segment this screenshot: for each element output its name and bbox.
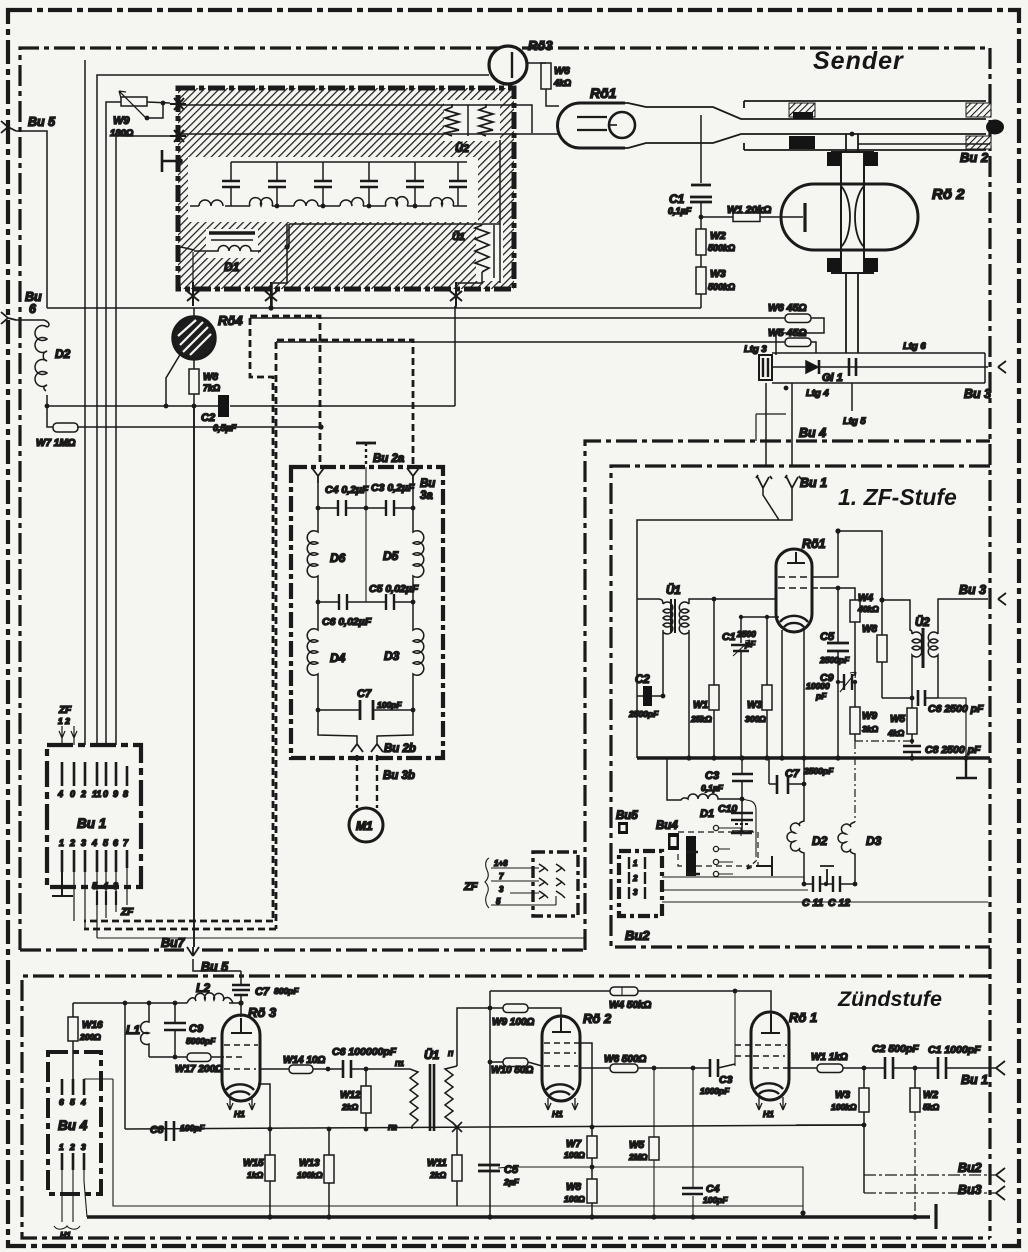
- rod hatch block left upper: [789, 103, 815, 117]
- svg-text:0: 0: [70, 789, 75, 799]
- C2 2500 black cap: [637, 695, 663, 697]
- svg-text:Zündstufe: Zündstufe: [837, 987, 942, 1011]
- svg-text:2kΩ: 2kΩ: [341, 1102, 358, 1112]
- svg-text:40kΩ: 40kΩ: [857, 604, 879, 614]
- Bu3a fork: [407, 468, 419, 483]
- svg-text:Bu2: Bu2: [625, 928, 650, 943]
- W11 2k: [456, 1127, 458, 1206]
- L1 coil: [141, 1003, 149, 1057]
- box bottom pin X 1: [187, 282, 199, 306]
- svg-text:W2: W2: [923, 1090, 938, 1101]
- resistor W5 45: [785, 338, 811, 347]
- W5 2M: [653, 1068, 655, 1217]
- svg-text:Bu 3: Bu 3: [959, 583, 986, 597]
- svg-text:C6 100000pF: C6 100000pF: [332, 1046, 397, 1058]
- C10: [741, 781, 743, 829]
- svg-text:W8: W8: [566, 1182, 581, 1193]
- svg-text:Ü2: Ü2: [915, 616, 930, 629]
- svg-text:Ü1: Ü1: [424, 1047, 440, 1062]
- Roe2 cathode bar: [803, 203, 806, 232]
- svg-text:3a: 3a: [420, 490, 433, 502]
- svg-text:2µF: 2µF: [503, 1177, 520, 1187]
- svg-text:W9: W9: [862, 711, 877, 722]
- Bu4 box Zuend: [48, 1052, 101, 1194]
- svg-text:W9: W9: [113, 115, 130, 127]
- C2 line up to pin3: [454, 306, 456, 406]
- svg-text:4: 4: [57, 789, 63, 799]
- ZF-Stufe box border: [611, 466, 990, 947]
- svg-text:2500pF: 2500pF: [803, 766, 834, 776]
- wire Bu5 down to supply line: [16, 131, 47, 308]
- svg-text:0,1µF: 0,1µF: [668, 206, 692, 216]
- svg-text:Bu 1: Bu 1: [77, 816, 106, 831]
- heater line: [113, 1079, 803, 1206]
- C1 trimmer ZF: [740, 617, 742, 758]
- D4 coil: [307, 602, 318, 710]
- svg-text:D1: D1: [700, 808, 714, 820]
- tube cathode arcs: [780, 616, 808, 627]
- svg-text:Bu 1: Bu 1: [961, 1073, 988, 1087]
- D3 coil: [413, 602, 424, 710]
- svg-text:3: 3: [113, 881, 118, 891]
- svg-text:C8 2500 pF: C8 2500 pF: [925, 744, 981, 756]
- svg-text:Bu2: Bu2: [958, 1161, 982, 1175]
- svg-text:W9 100Ω: W9 100Ω: [492, 1017, 534, 1028]
- svg-text:H1: H1: [60, 1230, 71, 1240]
- svg-text:4: 4: [102, 881, 108, 891]
- svg-text:C2: C2: [635, 674, 650, 686]
- dash-dot link W9 to C8: [855, 740, 910, 742]
- Roe1 tube Zuend: [751, 1012, 789, 1100]
- thin line under cables: [97, 937, 584, 939]
- svg-text:pF: pF: [744, 639, 756, 649]
- svg-text:4kΩ: 4kΩ: [553, 78, 571, 88]
- Bu1 bottom pins: [62, 850, 127, 872]
- Roe2 bottom pipes: [846, 273, 858, 353]
- Bu1 forks at ZF top: [756, 475, 801, 488]
- Roe4 top wire: [193, 308, 195, 317]
- svg-text:C1: C1: [722, 631, 736, 643]
- capacitor ladder C row: [222, 181, 467, 187]
- W1 25k: [713, 599, 715, 758]
- svg-text:800pF: 800pF: [274, 986, 299, 996]
- W7 100: [591, 1127, 593, 1179]
- U2 secondary down: [937, 661, 939, 698]
- svg-text:100Ω: 100Ω: [564, 1150, 585, 1160]
- M1 motor: [349, 808, 383, 842]
- svg-text:2: 2: [69, 838, 75, 848]
- Bu1 connector box: [47, 745, 141, 887]
- svg-text:5kΩ: 5kΩ: [923, 1102, 939, 1112]
- Roe3 cathode to C8 line: [258, 1084, 270, 1129]
- svg-text:1000pF: 1000pF: [700, 1086, 730, 1096]
- C6 100000: [343, 1060, 351, 1078]
- svg-text:2MΩ: 2MΩ: [628, 1152, 648, 1162]
- W5 45 line: [276, 341, 785, 343]
- D1 left wire to border: [181, 247, 194, 250]
- C7 cap: [318, 709, 413, 711]
- box left pin X 2: [170, 130, 186, 142]
- Bu4 feed-through verticals: [766, 383, 792, 467]
- svg-text:W7 1MΩ: W7 1MΩ: [36, 438, 76, 449]
- Ltg5 stub: [851, 383, 853, 411]
- Sender box border: [20, 48, 990, 950]
- svg-text:W2: W2: [710, 230, 726, 242]
- D5 coil: [413, 508, 424, 602]
- svg-text:W14 10Ω: W14 10Ω: [283, 1055, 325, 1066]
- W9 100: [490, 1008, 561, 1018]
- svg-text:Bu 2a: Bu 2a: [373, 453, 405, 465]
- bus lines to Bu3: [772, 353, 988, 383]
- capacitor on bus: [849, 358, 856, 376]
- svg-text:W6 500Ω: W6 500Ω: [604, 1054, 646, 1065]
- svg-text:D2: D2: [812, 834, 828, 848]
- W4 40k: [850, 600, 860, 622]
- svg-text:W10 50Ω: W10 50Ω: [491, 1065, 533, 1076]
- W2 5k: [914, 1068, 916, 1088]
- svg-text:7kΩ: 7kΩ: [203, 383, 220, 393]
- hatched filter box: [178, 88, 514, 289]
- Roe2 hourglass: [841, 186, 864, 247]
- W6 45 line: [250, 317, 785, 319]
- Bu1 bottom wires: [74, 868, 127, 938]
- svg-text:C 12: C 12: [828, 897, 850, 909]
- resistor in box lower right: [475, 225, 489, 272]
- k-line C5 to W7 node: [498, 1167, 803, 1213]
- rod hatch block right upper: [966, 103, 991, 117]
- anode supply line across: [47, 307, 701, 309]
- resistor in box top right a: [445, 104, 459, 136]
- C3 0.1 to ground: [732, 758, 753, 831]
- svg-text:0: 0: [103, 789, 108, 799]
- W8 100: [587, 1179, 597, 1203]
- C5 2500: [837, 588, 839, 758]
- svg-text:C9: C9: [189, 1023, 204, 1035]
- svg-text:W3: W3: [747, 700, 762, 711]
- C6 cap: [318, 601, 366, 603]
- pin4 wire: [84, 1078, 113, 1080]
- svg-text:W6: W6: [554, 65, 570, 77]
- component box dashed border: [291, 467, 443, 758]
- svg-text:C1: C1: [669, 192, 685, 206]
- svg-text:Ltg 5: Ltg 5: [843, 416, 866, 427]
- D2 choke: [16, 320, 49, 327]
- svg-text:2: 2: [80, 789, 86, 799]
- wire top to Roe3 meter: [97, 75, 489, 745]
- svg-text:Bu 3: Bu 3: [964, 387, 991, 401]
- W9 tap wire: [147, 103, 163, 118]
- secondary top wire: [457, 1008, 490, 1066]
- shielded cable A dashed: [84, 316, 413, 929]
- svg-text:D3: D3: [384, 649, 400, 663]
- Roe2 screen to W7 column: [580, 1043, 592, 1127]
- svg-text:6: 6: [29, 302, 37, 316]
- svg-text:100Ω: 100Ω: [564, 1194, 585, 1204]
- svg-text:Ltg 3: Ltg 3: [744, 344, 767, 355]
- wire between resistors: [467, 105, 469, 136]
- W16 200: [72, 1003, 74, 1079]
- C8 2500: [903, 746, 921, 752]
- Bu5 wire into stage / C7 800: [240, 971, 242, 1017]
- svg-text:ZF: ZF: [58, 705, 72, 716]
- svg-text:Bu: Bu: [420, 478, 435, 490]
- grounding stub on box edge: [162, 150, 180, 172]
- U1 transformer ZF: [637, 599, 663, 604]
- C2 0.5uF line: [47, 405, 455, 407]
- Roe1 transmitter tube: [558, 103, 626, 148]
- svg-text:Ü2: Ü2: [455, 142, 469, 155]
- D1 choke ZF: [667, 758, 742, 800]
- W7 1M resistor: [47, 406, 321, 427]
- ZF block forks: [539, 864, 565, 899]
- svg-text:W3: W3: [835, 1090, 850, 1101]
- svg-text:9: 9: [113, 789, 118, 799]
- svg-text:2500pF: 2500pF: [628, 709, 659, 719]
- box bottom pin X 3: [450, 282, 462, 306]
- svg-text:Rö3: Rö3: [528, 38, 553, 53]
- svg-text:100pF: 100pF: [180, 1123, 205, 1133]
- svg-text:Bu4: Bu4: [656, 820, 678, 832]
- svg-text:Bu 3b: Bu 3b: [383, 770, 415, 782]
- svg-text:W16: W16: [82, 1020, 103, 1031]
- wire line through box upper: [181, 104, 502, 106]
- D2 choke ZF: [787, 784, 804, 884]
- svg-text:W5: W5: [629, 1140, 644, 1151]
- C7 2500 below bus: [769, 758, 804, 784]
- W3 300: [766, 617, 768, 758]
- svg-text:2500: 2500: [736, 629, 756, 639]
- svg-text:ZF: ZF: [463, 881, 478, 893]
- svg-text:W17 200Ω: W17 200Ω: [175, 1064, 223, 1075]
- svg-text:5000pF: 5000pF: [186, 1036, 216, 1046]
- svg-text:8: 8: [123, 789, 128, 799]
- Bu2 box ZF: [619, 851, 662, 916]
- W9 wires: [106, 102, 121, 136]
- W10 50: [490, 1062, 542, 1066]
- svg-text:Rö 3: Rö 3: [248, 1005, 277, 1020]
- tube top cap: [787, 552, 805, 563]
- U2 transformer ZF: [882, 600, 912, 634]
- svg-text:H1: H1: [552, 1109, 563, 1119]
- svg-text:Bu 4: Bu 4: [58, 1118, 88, 1133]
- svg-text:200Ω: 200Ω: [79, 1032, 101, 1042]
- resistor W2 500k: [700, 217, 702, 229]
- grid feed vertical: [734, 991, 736, 1066]
- svg-text:D2: D2: [55, 347, 71, 361]
- svg-text:100kΩ: 100kΩ: [297, 1170, 323, 1180]
- W17 200: [149, 1056, 222, 1058]
- C5 2uF: [478, 1165, 500, 1171]
- svg-text:W7: W7: [566, 1139, 581, 1150]
- W9 potentiometer: [121, 97, 147, 106]
- Bu3b fork: [371, 744, 383, 752]
- svg-text:H1: H1: [234, 1109, 245, 1119]
- svg-text:W13: W13: [299, 1158, 320, 1169]
- W3 100k: [863, 1068, 865, 1193]
- inner wire below coils: [289, 140, 500, 283]
- W8 7k resistor: [193, 359, 195, 406]
- svg-text:Sender: Sender: [813, 47, 904, 75]
- svg-text:C5: C5: [504, 1164, 519, 1176]
- long vertical feed: [489, 991, 491, 1217]
- D1 coil bars: [209, 231, 255, 234]
- antenna stub above box: [356, 443, 376, 467]
- svg-text:L1: L1: [126, 1023, 140, 1037]
- svg-text:C8: C8: [150, 1124, 164, 1136]
- C9 trimmer: [838, 681, 855, 683]
- Bu2 line out: [864, 1174, 996, 1176]
- Bu3 out connector: [998, 361, 1006, 373]
- inductor chain: [190, 197, 467, 206]
- svg-text:W4: W4: [858, 593, 873, 604]
- svg-text:L2: L2: [196, 981, 210, 995]
- Roe3 meter: [489, 46, 527, 84]
- svg-text:3: 3: [633, 888, 638, 897]
- svg-text:W3: W3: [710, 268, 726, 280]
- stub right of relay: [756, 856, 772, 876]
- W1 20k wire: [701, 216, 803, 218]
- grid line: [741, 616, 779, 618]
- svg-text:Ü1: Ü1: [452, 230, 465, 243]
- svg-text:4kΩ: 4kΩ: [887, 728, 904, 738]
- C4 100: [692, 1068, 694, 1217]
- W4 50k: [610, 987, 638, 996]
- svg-text:W8: W8: [203, 372, 218, 383]
- Sender right border running full height: [988, 48, 991, 1238]
- C1 1000: [915, 1067, 996, 1069]
- svg-text:C4: C4: [706, 1183, 720, 1195]
- U1 transformer Zuend: [366, 1069, 418, 1129]
- D1 right riser to pin2: [272, 224, 287, 308]
- Bu2 wire: [858, 143, 990, 145]
- svg-text:2: 2: [632, 874, 638, 883]
- L2 coil: [187, 993, 233, 1003]
- svg-text:6: 6: [59, 1097, 64, 1107]
- Roe3 legs: [227, 1098, 255, 1110]
- svg-text:Ü1: Ü1: [666, 584, 681, 597]
- Gl1 diode: [806, 361, 818, 373]
- W8: [881, 600, 883, 698]
- Zuend ground bus: [87, 1215, 930, 1219]
- rod outer shield lines: [744, 101, 986, 150]
- svg-text:5: 5: [496, 897, 501, 906]
- C4 cap: [318, 483, 366, 508]
- svg-text:C10: C10: [718, 803, 737, 815]
- rod end ball: [986, 120, 1004, 135]
- svg-text:Bu 4: Bu 4: [799, 426, 826, 440]
- W13 100k: [328, 1129, 330, 1217]
- Roe4 down wire to Bu7: [193, 406, 195, 947]
- svg-text:W12: W12: [340, 1090, 361, 1101]
- Zuendstufe box border: [22, 976, 990, 1238]
- Sender bottom-left border: [20, 948, 585, 951]
- svg-text:Bu 5: Bu 5: [201, 960, 229, 974]
- svg-text:Bu 2: Bu 2: [960, 150, 989, 165]
- svg-text:Bu 2b: Bu 2b: [384, 743, 416, 755]
- svg-text:4: 4: [91, 838, 97, 848]
- screen line to W4: [820, 588, 855, 600]
- stub node: [502, 105, 532, 133]
- straight line next to lower resistor: [493, 225, 495, 278]
- svg-text:3: 3: [81, 1142, 86, 1152]
- svg-text:Bu3: Bu3: [958, 1183, 982, 1197]
- converge to Bu2b/3b: [318, 710, 413, 744]
- labels 5 4 3: [97, 891, 116, 905]
- D6 coil: [307, 508, 318, 602]
- right vertical to ground: [938, 698, 966, 758]
- svg-text:Rö 2: Rö 2: [932, 186, 965, 203]
- svg-text:11: 11: [92, 789, 101, 799]
- svg-text:500kΩ: 500kΩ: [708, 282, 735, 292]
- svg-text:300Ω: 300Ω: [745, 714, 766, 724]
- C6 2500: [918, 690, 925, 706]
- ladder top bus: [231, 161, 467, 163]
- C5 cap: [366, 601, 413, 603]
- Bu2a fork: [312, 468, 324, 483]
- Bu5 connector left: [1, 121, 16, 133]
- tube grid dashes: [778, 576, 810, 578]
- junction dots on chain: [275, 204, 418, 209]
- svg-text:Gl 1: Gl 1: [822, 372, 843, 384]
- svg-text:C7: C7: [357, 688, 372, 700]
- Bu3 fork right: [998, 593, 1006, 605]
- W1 1k: [789, 1067, 864, 1069]
- resistor W3 500k: [696, 267, 706, 294]
- C1 riser from rod: [700, 115, 702, 183]
- svg-text:Rö1: Rö1: [590, 85, 617, 101]
- wire line to Roe1: [181, 133, 558, 135]
- svg-text:W4 50kΩ: W4 50kΩ: [609, 1000, 651, 1011]
- left vertical from Bu1: [636, 599, 638, 758]
- rod hatch block right lower: [966, 136, 991, 149]
- svg-text:100pF: 100pF: [703, 1195, 728, 1205]
- svg-text:C3 0,2µF: C3 0,2µF: [371, 482, 415, 494]
- B+ line W4: [490, 991, 771, 1014]
- svg-text:2kΩ: 2kΩ: [429, 1170, 446, 1180]
- svg-text:Ltg 6: Ltg 6: [903, 341, 926, 352]
- svg-text:W1 1kΩ: W1 1kΩ: [811, 1052, 848, 1063]
- svg-text:Bu 1: Bu 1: [800, 476, 827, 490]
- svg-text:C6 0,02µF: C6 0,02µF: [322, 616, 372, 628]
- D3 choke ZF: [838, 822, 855, 884]
- svg-text:0,5µF: 0,5µF: [213, 423, 237, 433]
- Roe1 ZF tube: [776, 549, 812, 632]
- Roe2 corner blocks: [827, 152, 878, 272]
- resistor W1: [733, 213, 760, 222]
- Bu1 wire into ZF: [637, 488, 792, 599]
- X mark at secondary bottom: [452, 1122, 462, 1132]
- Roe4 lamp: [173, 317, 215, 359]
- C8 100: [166, 1121, 174, 1141]
- ZF patch block: [533, 852, 578, 916]
- ground stub right: [934, 1204, 937, 1229]
- svg-text:W6 45Ω: W6 45Ω: [768, 302, 807, 314]
- svg-text:C2 500pF: C2 500pF: [872, 1043, 919, 1055]
- svg-text:D4: D4: [330, 651, 346, 665]
- W6 500: [580, 1067, 693, 1069]
- C1 capacitor: [690, 185, 712, 202]
- W8 bottom to C6: [882, 697, 912, 699]
- svg-text:2: 2: [69, 1142, 75, 1152]
- svg-text:25kΩ: 25kΩ: [690, 714, 712, 724]
- node C1/W2: [699, 215, 704, 220]
- M1 motor leads dashed: [357, 755, 377, 808]
- svg-text:100kΩ: 100kΩ: [831, 1102, 857, 1112]
- relay: [678, 832, 758, 866]
- svg-text:C1 1000pF: C1 1000pF: [928, 1044, 981, 1056]
- W9 arrow: [119, 91, 147, 119]
- C2 capacitor black: [218, 395, 229, 417]
